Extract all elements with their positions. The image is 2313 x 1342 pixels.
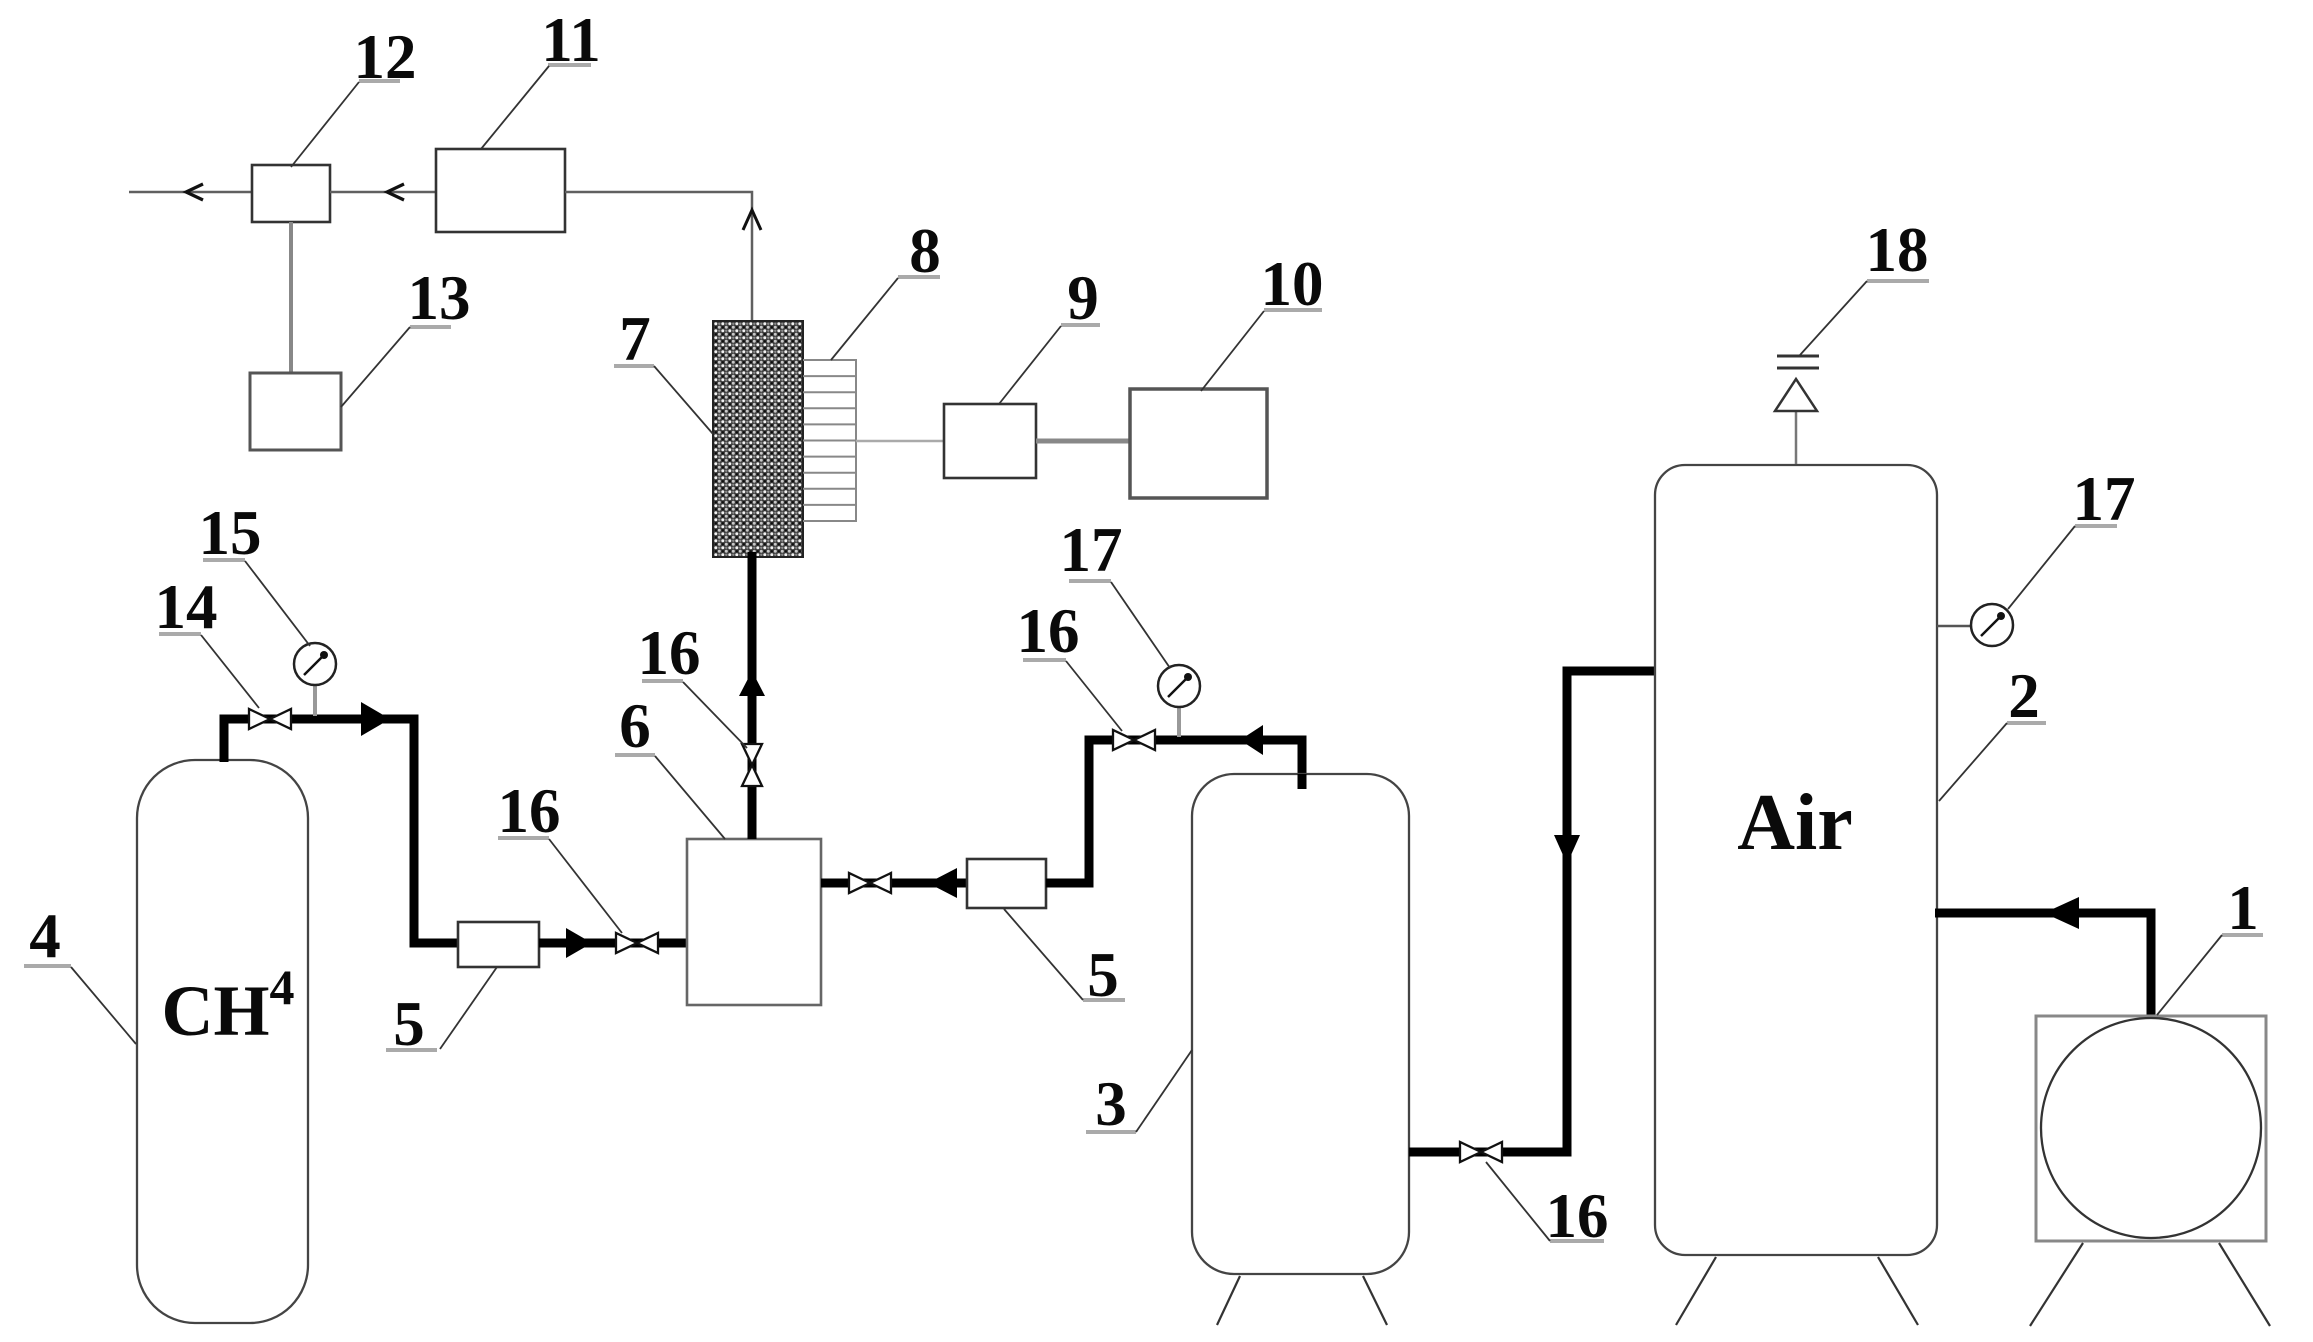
svg-text:2: 2 [2008,661,2040,731]
compressor right leg [2219,1243,2270,1326]
pipe mixer up to reactor [748,552,757,839]
mixer box 6 [687,839,821,1005]
reactor column 7 [713,321,803,557]
svg-text:17: 17 [2073,464,2136,534]
air vessel right leg [1878,1257,1918,1325]
svg-text:7: 7 [619,304,651,374]
wire box12 down to box13 [289,222,293,373]
box 5 right (flame arrester) [967,859,1046,908]
svg-text:17: 17 [1060,515,1123,585]
gauge 17 a [1177,708,1181,737]
vent 18 stem [1795,411,1798,464]
valve 16 c [1113,730,1155,750]
box 9 [944,404,1036,478]
pipe box5 to mixer 6 [539,939,687,948]
svg-text:15: 15 [199,498,262,568]
gauge 15 [313,686,317,716]
pipe box5b to vessel 3 [1046,740,1302,883]
svg-text:13: 13 [408,263,471,333]
box 10 [1130,389,1267,498]
svg-text:9: 9 [1067,263,1099,333]
wire box9 to box10 [1036,439,1130,444]
vessel 3 [1192,774,1409,1274]
valve 16 d [1460,1142,1502,1162]
box 12 [252,165,330,222]
pipe stub into vessel 3 top [1298,774,1307,789]
svg-text:4: 4 [29,901,61,971]
svg-text:16: 16 [498,776,561,846]
pipe compressor to air vessel [1935,913,2151,1018]
arrow left exit [186,184,203,200]
wire box11 right to corner [565,192,752,321]
valve 14 [249,709,291,729]
vent 18 lines [1777,355,1819,358]
vessel 3 right leg [1363,1276,1387,1325]
gauge 17 b [1937,625,1971,628]
svg-text:1: 1 [2227,873,2259,943]
arrow up on riser [743,210,761,230]
valve 16 e [849,873,891,893]
box 13 [250,373,341,450]
arrow right on CH4 pipe [361,702,390,736]
svg-text:16: 16 [638,618,701,688]
vent 18 triangle [1775,379,1817,411]
compressor 1 square [2036,1016,2266,1241]
CH4 cylinder 4 [137,760,308,1323]
compressor 1 circle [2041,1018,2261,1238]
vessel 3 left leg [1217,1276,1240,1325]
svg-text:3: 3 [1095,1069,1127,1139]
box 11 [436,149,565,232]
svg-text:16: 16 [1017,596,1080,666]
arrow left on pipe to mixer [1240,725,1263,755]
box 5 left (flame arrester) [458,922,539,967]
pipe vessel3 to air vessel [1409,671,1660,1152]
pipe CH4 to box 5 [224,719,458,943]
svg-text:6: 6 [619,691,651,761]
pipe mixer right to box 5b [821,879,967,888]
arrow right before valve 16 [566,928,592,958]
heater comb 8 [803,359,856,522]
arrow left into mixer [928,868,957,898]
valve 16 a [616,933,658,953]
air vessel 2 [1655,465,1937,1255]
air vessel left leg [1676,1257,1716,1325]
svg-text:Air: Air [1737,779,1853,867]
wire exit line left of box 12 [129,191,252,194]
arrow up to reactor [739,671,765,696]
arrow left between 11 and 12 [387,184,404,200]
svg-text:14: 14 [155,572,218,642]
valve 16 b vertical [742,744,762,786]
svg-text:18: 18 [1866,215,1929,285]
arrow left into air vessel [2044,897,2079,929]
arrow down on riser [1554,835,1580,864]
wire comb to box 9 [856,440,944,443]
compressor left leg [2030,1243,2083,1326]
wire box12 to box11 [330,191,436,194]
